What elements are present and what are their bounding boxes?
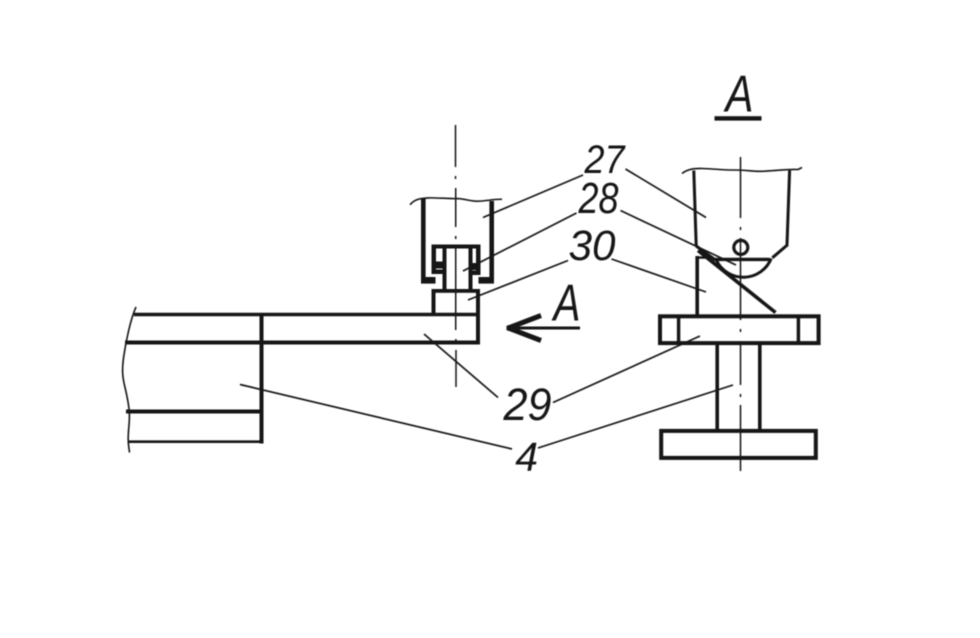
left block right edge	[260, 313, 264, 444]
leader 30 to block	[468, 261, 568, 301]
leader 4 to left block	[240, 385, 512, 450]
svg-text:29: 29	[503, 379, 552, 430]
svg-text:A: A	[723, 66, 753, 124]
leader 28 to roller	[463, 213, 577, 271]
centerline of right view	[740, 157, 742, 471]
block 30 left edge	[432, 289, 436, 315]
block 30 / arm right edge	[476, 289, 480, 345]
break line (wavy top) of fork 27	[410, 198, 502, 205]
centerline of fork/roller assembly	[455, 125, 458, 387]
right view: break line wavy top	[682, 168, 802, 174]
svg-text:A: A	[551, 275, 580, 333]
holder left edge (section)	[694, 171, 696, 247]
fork left foot	[421, 277, 436, 284]
pedestal base flange	[661, 431, 816, 458]
fork left leg	[421, 199, 426, 281]
table plate	[660, 316, 819, 343]
pin circle	[734, 240, 748, 254]
holder right chamfer	[772, 245, 788, 258]
roller left foot	[432, 270, 444, 275]
left block wavy break edge	[123, 307, 136, 453]
holder left chamfer	[696, 246, 714, 259]
leader 30 to wedge section	[612, 259, 707, 292]
leader 28 to ball section	[621, 211, 737, 266]
leader 27 to holder section	[626, 169, 707, 218]
section arrow A	[509, 327, 580, 330]
roller hub right line	[469, 246, 473, 290]
leader 29 to table section	[553, 336, 700, 403]
svg-text:28: 28	[578, 174, 619, 223]
wedge 30 top edge	[696, 256, 714, 258]
arm bottom line	[125, 341, 480, 345]
leader 4 to pedestal section	[538, 385, 733, 448]
roller right wall	[476, 245, 481, 276]
arm top line	[134, 313, 480, 317]
leader 29 to arm	[424, 334, 498, 398]
roller 28 top bar	[432, 245, 481, 249]
table inner left line	[677, 317, 680, 344]
svg-text:4: 4	[515, 434, 538, 480]
roller right foot	[469, 271, 481, 276]
fork right foot	[479, 277, 495, 284]
roller bearing left	[435, 262, 447, 269]
block 30 top edge	[432, 289, 481, 293]
wedge 30 hypotenuse	[698, 251, 776, 313]
holder bottom edge	[713, 258, 770, 261]
table inner right line	[797, 317, 800, 344]
left block bottom line	[129, 440, 263, 443]
fork right leg	[489, 201, 494, 280]
view title underline	[715, 116, 762, 120]
roller bearing right	[469, 263, 479, 270]
roller left wall	[432, 245, 437, 275]
wedge 30 left edge	[695, 256, 699, 315]
leader 27 to fork	[483, 175, 583, 218]
roller ball arc (section)	[717, 259, 772, 278]
pedestal web left	[715, 344, 719, 431]
roller hub left line	[443, 246, 447, 290]
pedestal web right	[758, 344, 762, 431]
left block inner line	[126, 410, 262, 414]
holder right edge (section)	[787, 171, 790, 245]
svg-text:30: 30	[569, 222, 616, 270]
